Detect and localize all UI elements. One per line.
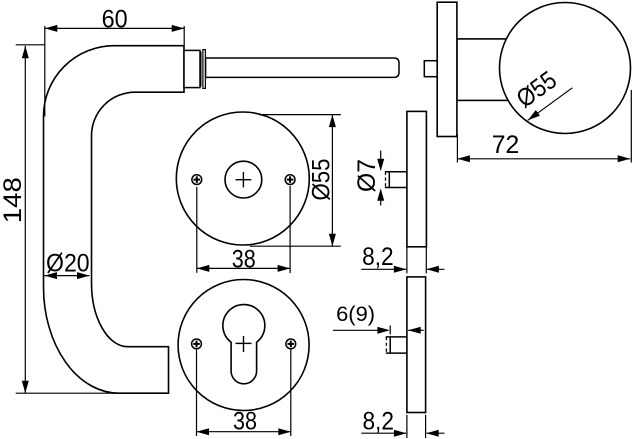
svg-text:38: 38: [232, 246, 256, 274]
svg-text:6(9): 6(9): [336, 303, 375, 326]
svg-text:72: 72: [492, 131, 520, 159]
svg-text:8,2: 8,2: [362, 243, 394, 271]
svg-text:8,2: 8,2: [362, 407, 394, 435]
svg-text:O55: O55: [308, 159, 336, 201]
svg-text:60: 60: [102, 6, 128, 34]
svg-text:38: 38: [233, 407, 257, 435]
svg-text:148: 148: [0, 177, 27, 223]
svg-text:O20: O20: [46, 250, 90, 278]
svg-text:O7: O7: [353, 159, 381, 192]
